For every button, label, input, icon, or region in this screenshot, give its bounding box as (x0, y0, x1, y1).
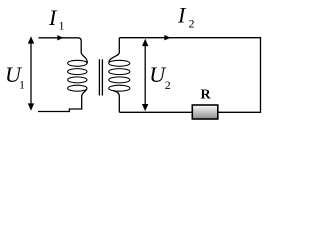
svg-text:2: 2 (165, 78, 171, 92)
svg-text:I: I (48, 5, 58, 30)
svg-text:1: 1 (19, 77, 25, 91)
svg-text:2: 2 (189, 16, 195, 30)
svg-text:1: 1 (59, 19, 65, 33)
svg-text:R: R (201, 88, 212, 103)
svg-text:I: I (177, 3, 187, 28)
